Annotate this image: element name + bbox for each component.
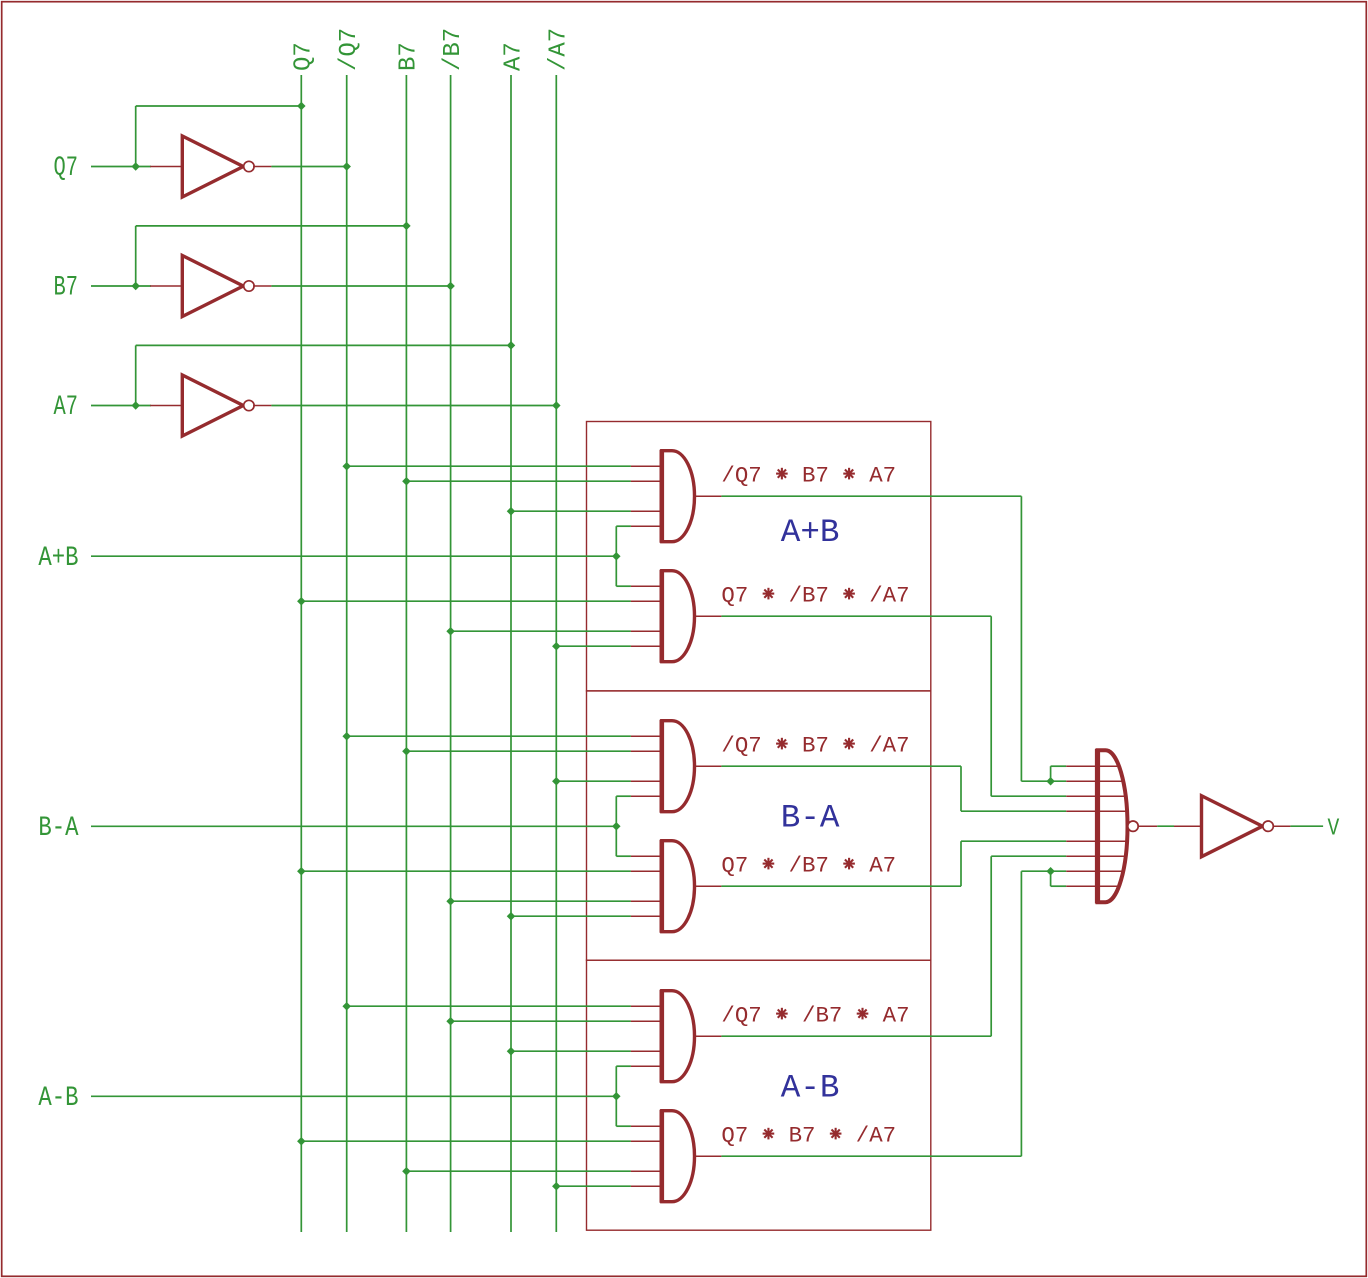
node B7 input junction xyxy=(131,282,140,291)
net /A7 vertical bus wire xyxy=(555,75,557,1232)
wire B7 to B7 bus (up and over) xyxy=(135,226,137,286)
wire A7 bus to U7 pin 4 xyxy=(511,915,631,917)
wire V output xyxy=(1290,825,1323,827)
node B-A junction xyxy=(612,822,621,831)
box A+B section xyxy=(587,422,931,691)
wire /B7 bus to U7 pin 3 xyxy=(451,900,631,902)
wire NOR to output inverter xyxy=(1157,825,1174,827)
and-gate U6 (B-A top) xyxy=(662,721,695,812)
svg-text:A+B: A+B xyxy=(781,514,840,551)
node junction on /B7 bus xyxy=(446,1017,455,1025)
node A7 input junction xyxy=(131,401,140,410)
svg-text:Q7/B7A7: Q7/B7A7 xyxy=(721,852,896,878)
wire Q7 bus to U7 pin 2 xyxy=(301,870,631,872)
svg-text:B-A: B-A xyxy=(38,812,79,844)
node junction on /A7 bus xyxy=(552,401,561,410)
node junction on B7 bus xyxy=(402,1167,411,1176)
svg-text:/Q7B7/A7: /Q7B7/A7 xyxy=(721,732,909,758)
svg-text:B-A: B-A xyxy=(781,800,840,837)
wire /A7 bus to U6 pin 3 xyxy=(556,780,631,782)
wire A7 bus to U8 pin 3 xyxy=(511,1050,631,1052)
wire A+B bottom gate output to NOR pin 3 xyxy=(721,615,991,617)
inverter U3 output pin xyxy=(253,405,271,407)
wire A7 input xyxy=(91,405,151,407)
node junction on A7 bus xyxy=(507,341,516,350)
asterisk symbols (B-A top) xyxy=(776,738,788,750)
wire Q7 bus to U5 pin 2 xyxy=(301,600,631,602)
svg-text:Q7B7/A7: Q7B7/A7 xyxy=(721,1122,896,1148)
wire Q7 bus to U9 pin 2 xyxy=(301,1140,631,1142)
and-gate U9 input pins xyxy=(631,1125,662,1127)
and-gate U8 input pins xyxy=(631,1005,662,1007)
wire U1 output to /Q7 bus xyxy=(271,166,346,168)
wire Q7 input xyxy=(91,166,151,168)
wire A-B stub to gate pins xyxy=(615,1066,617,1126)
node junction NOR pins 1-2 xyxy=(1046,777,1055,786)
wire B-A input xyxy=(91,825,616,827)
node junction on A7 bus xyxy=(507,912,516,921)
and-gate U7 input pins xyxy=(631,855,662,857)
svg-text:Q7/B7/A7: Q7/B7/A7 xyxy=(721,582,909,608)
node junction on /B7 bus xyxy=(446,627,455,636)
wire B-A bottom gate output to NOR pin 5 xyxy=(721,885,961,887)
and-gate U6 output pin xyxy=(695,765,722,767)
svg-text:B7: B7 xyxy=(54,273,78,304)
wire /Q7 bus to U8 pin 1 xyxy=(347,1005,631,1007)
node junction on /A7 bus xyxy=(552,1182,561,1191)
and-gate U4 (A+B top) xyxy=(662,451,695,542)
wire U2 output to /B7 bus xyxy=(271,285,450,287)
wire B7 bus to U9 pin 3 xyxy=(406,1170,631,1172)
svg-text:/A7: /A7 xyxy=(546,28,573,71)
wire B-A top gate output to NOR pin 4 xyxy=(721,765,961,767)
asterisk symbols (A+B top) xyxy=(776,468,788,480)
wire stub NOR pin 8 xyxy=(1050,871,1052,886)
node junction on /Q7 bus xyxy=(342,162,351,171)
inverter U2 input pin xyxy=(150,285,182,287)
inverter U1 xyxy=(182,136,243,197)
inverter U2 output pin xyxy=(253,285,271,287)
svg-text:A7: A7 xyxy=(500,42,527,71)
asterisk symbols (A-B top) xyxy=(776,1008,788,1020)
inverter U3 xyxy=(182,375,243,436)
svg-text:/Q7B7A7: /Q7B7A7 xyxy=(721,462,896,488)
svg-text:B7: B7 xyxy=(396,42,423,71)
svg-text:/B7: /B7 xyxy=(440,28,467,71)
node junction on /Q7 bus xyxy=(342,462,351,471)
wire A+B stub to gate pins xyxy=(615,526,617,586)
nor-gate U10 output pin xyxy=(1138,825,1157,827)
net /B7 vertical bus wire xyxy=(450,75,452,1232)
node A+B junction xyxy=(612,552,621,561)
wire A-B bottom gate output to NOR pin 7 xyxy=(721,1155,1021,1157)
node junction on A7 bus xyxy=(507,507,516,516)
box B-A section xyxy=(587,691,931,960)
inverter U1 input pin xyxy=(150,166,182,168)
nor-gate U10 output bubble xyxy=(1128,821,1138,831)
node junction NOR pins 7-8 xyxy=(1046,867,1055,876)
wire B7 bus to U6 pin 2 xyxy=(406,750,631,752)
net B7 vertical bus wire xyxy=(405,75,407,1232)
node junction on /Q7 bus xyxy=(342,732,351,741)
and-gate U7 (B-A bottom) xyxy=(662,841,695,932)
inverter U11 input pin xyxy=(1174,825,1202,827)
and-gate U5 output pin xyxy=(695,615,722,617)
and-gate U6 input pins xyxy=(631,735,662,737)
wire /B7 bus to U5 pin 3 xyxy=(451,630,631,632)
asterisk symbols (B-A bottom) xyxy=(763,858,775,870)
node junction on B7 bus xyxy=(402,747,411,756)
svg-text:A-B: A-B xyxy=(38,1082,78,1114)
wire /Q7 bus to U4 pin 1 xyxy=(347,465,631,467)
svg-text:Q7: Q7 xyxy=(291,42,318,71)
node junction on Q7 bus xyxy=(297,867,306,876)
wire /B7 bus to U8 pin 2 xyxy=(451,1020,631,1022)
node A-B junction xyxy=(612,1092,621,1101)
node junction on B7 bus xyxy=(402,477,411,486)
and-gate U7 output pin xyxy=(695,885,722,887)
wire A7 to A7 bus (up and over) xyxy=(135,345,137,405)
wire A+B input xyxy=(91,555,616,557)
node junction on A7 bus xyxy=(507,1047,516,1056)
node junction on Q7 bus xyxy=(297,1137,306,1146)
and-gate U4 output pin xyxy=(695,495,722,497)
and-gate U4 input pins xyxy=(631,465,662,467)
and-gate U9 output pin xyxy=(695,1155,722,1157)
wire B7 bus to U4 pin 2 xyxy=(406,480,631,482)
wire Q7 to Q7 bus (up and over) xyxy=(135,106,137,167)
node junction on /B7 bus xyxy=(446,897,455,906)
wire stub NOR pin 1 xyxy=(1050,766,1052,781)
and-gate U9 (A-B bottom) xyxy=(662,1111,695,1202)
wire A7 bus to U4 pin 3 xyxy=(511,510,631,512)
wire A-B top gate output to NOR pin 6 xyxy=(721,1035,991,1037)
wire /A7 bus to U9 pin 4 xyxy=(556,1185,631,1187)
svg-text:A+B: A+B xyxy=(38,542,78,574)
node Q7 input junction xyxy=(131,162,140,171)
box A-B section xyxy=(587,960,931,1230)
and-gate U5 (A+B bottom) xyxy=(662,571,695,662)
asterisk symbols (A-B bottom) xyxy=(763,1128,775,1140)
net A7 vertical bus wire xyxy=(510,75,512,1232)
and-gate U5 input pins xyxy=(631,585,662,587)
node junction on Q7 bus xyxy=(297,102,306,111)
svg-text:A-B: A-B xyxy=(781,1069,840,1106)
inverter U11 xyxy=(1202,796,1263,857)
wire B7 input xyxy=(91,285,151,287)
nor-gate U10 body xyxy=(1098,750,1128,902)
wire A+B top gate output to NOR pin 2 xyxy=(721,495,1021,497)
svg-text:V: V xyxy=(1328,815,1340,843)
wire /Q7 bus to U6 pin 1 xyxy=(347,735,631,737)
wire B-A stub to gate pins xyxy=(615,796,617,856)
node junction on /Q7 bus xyxy=(342,1002,351,1011)
and-gate U8 output pin xyxy=(695,1035,722,1037)
node junction on /A7 bus xyxy=(552,777,561,786)
net /Q7 vertical bus wire xyxy=(346,75,348,1232)
svg-text:/Q7: /Q7 xyxy=(336,28,363,71)
svg-text:Q7: Q7 xyxy=(54,154,78,185)
inverter U11 output pin xyxy=(1274,825,1291,827)
wire U3 output to /A7 bus xyxy=(271,405,556,407)
node junction on B7 bus xyxy=(402,222,411,231)
node junction on /A7 bus xyxy=(552,642,561,651)
net Q7 vertical bus wire xyxy=(300,75,302,1232)
inverter U2 xyxy=(182,256,243,317)
inverter U3 input pin xyxy=(150,405,182,407)
wire /A7 bus to U5 pin 4 xyxy=(556,645,631,647)
asterisk symbols (A+B bottom) xyxy=(763,588,775,600)
nor-gate U10 input pins xyxy=(1066,765,1119,767)
node junction on /B7 bus xyxy=(446,282,455,291)
node junction on Q7 bus xyxy=(297,597,306,606)
svg-text:/Q7/B7A7: /Q7/B7A7 xyxy=(721,1002,909,1028)
svg-text:A7: A7 xyxy=(54,393,78,424)
inverter U1 output pin xyxy=(253,166,271,168)
and-gate U8 (A-B top) xyxy=(662,991,695,1082)
wire A-B input xyxy=(91,1095,616,1097)
